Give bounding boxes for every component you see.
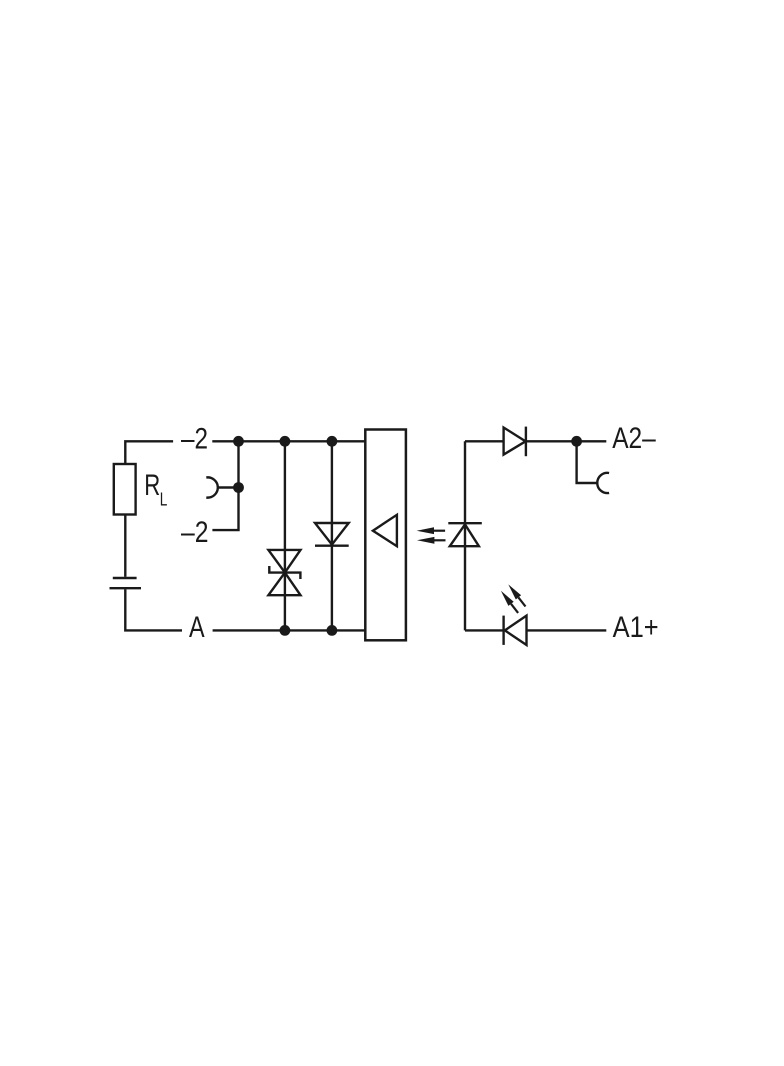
svg-text:R: R: [144, 469, 160, 502]
svg-text:A: A: [189, 611, 205, 644]
svg-text:L: L: [160, 489, 168, 510]
svg-text:–2: –2: [181, 422, 208, 455]
svg-text:A1+: A1+: [613, 611, 659, 644]
svg-text:–2: –2: [181, 516, 209, 549]
svg-text:A2–: A2–: [612, 422, 656, 455]
